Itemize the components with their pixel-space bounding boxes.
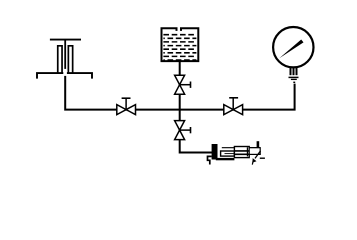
piston gauge (deadweight tester) P1 bbox=[37, 40, 92, 79]
tank B1 bbox=[162, 28, 199, 61]
gauge dial bbox=[273, 27, 313, 67]
gauge stem line 2 bbox=[291, 78, 297, 80]
threaded cylinder bbox=[234, 147, 249, 158]
screw press / syringe S1 bbox=[208, 141, 265, 164]
cylinder base left bbox=[37, 73, 63, 79]
right cylinder wall bbox=[68, 46, 72, 73]
gauge thread bar 1 bbox=[290, 68, 292, 75]
barrel bbox=[249, 148, 260, 155]
valve V3 (horizontal, right) bbox=[224, 98, 243, 115]
valve V4 (vertical, lower branch) bbox=[175, 121, 191, 140]
cylinder base right bbox=[67, 73, 92, 79]
outlet port bar bbox=[257, 141, 260, 147]
base bar bbox=[216, 158, 235, 160]
left cylinder wall bbox=[58, 46, 62, 73]
arrow head bbox=[252, 158, 256, 163]
handwheel knob bbox=[212, 144, 218, 160]
gauge thread bar 2 bbox=[293, 68, 295, 75]
piston rod bbox=[64, 40, 66, 69]
gauge needle bbox=[279, 40, 303, 59]
body top edge bbox=[222, 147, 260, 149]
pressure gauge G1 bbox=[273, 27, 313, 82]
tank walls with filler gap bbox=[162, 28, 199, 61]
wire: tank drop, vertical branch, bottom run to press bbox=[180, 62, 213, 153]
valve V2 (horizontal, left) bbox=[117, 98, 136, 114]
foot line bbox=[260, 157, 265, 159]
piston line bbox=[246, 147, 248, 156]
wire: piston stub + main horizontal line + gauge riser bbox=[65, 76, 294, 110]
spindle rod bbox=[221, 151, 235, 156]
gauge stem line 1 bbox=[289, 76, 299, 78]
valve V1 (vertical, tank to main line) bbox=[175, 75, 191, 94]
arrow tail tick bbox=[251, 162, 254, 165]
adjustment arrow bbox=[255, 151, 261, 159]
rod axis line bbox=[225, 153, 235, 155]
top bar bbox=[50, 39, 81, 41]
gauge thread bar 3 bbox=[296, 68, 298, 75]
mounting bracket bbox=[208, 156, 212, 164]
liquid hatching bbox=[163, 35, 196, 60]
gauge stem line 3 bbox=[293, 81, 295, 83]
